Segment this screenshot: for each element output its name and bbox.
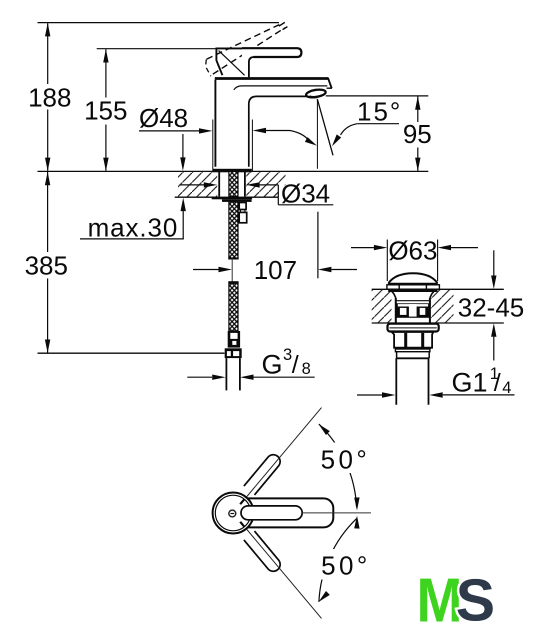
top view: lever: [237, 498, 334, 527]
label diameter 34: [180, 184, 205, 186]
angle arc lower: [319, 519, 357, 602]
braided hose in deck: [229, 171, 238, 196]
svg-text:4: 4: [502, 379, 511, 397]
svg-text:8: 8: [302, 360, 311, 378]
deck bottom lines: [175, 196, 279, 198]
top reference line (188 level): [38, 22, 280, 24]
svg-text:Ø34: Ø34: [281, 179, 330, 209]
spout height reference line: [326, 95, 429, 97]
top view: body circle: [213, 493, 254, 534]
G3/8 threaded tube: [226, 358, 240, 390]
water stream 15 deg: [317, 99, 333, 155]
mounting nut: [222, 199, 252, 202]
nut lower step: [395, 349, 430, 352]
mounting deck hatch right: [246, 172, 285, 186]
svg-text:188: 188: [28, 82, 71, 112]
top view: hidden-edge ticks: [240, 499, 244, 526]
mounting deck hatch left: [178, 172, 217, 198]
dimension 32-45: [493, 250, 495, 275]
pull-rod fitting: [239, 203, 246, 210]
drain cap dome: [389, 273, 438, 283]
svg-text:S: S: [456, 568, 495, 634]
handle pivot block: [216, 48, 245, 75]
angle arc upper: [319, 424, 357, 507]
dimension 95: [417, 96, 419, 170]
top view: lower swung lever ghost: [244, 531, 280, 571]
spout underside and body right edge: [249, 96, 308, 166]
deck top line: [38, 170, 429, 172]
basin deck lines: [372, 289, 504, 323]
top view: upper swung lever ghost: [244, 455, 280, 495]
top view: logo button: [229, 510, 236, 517]
top view: 50 deg centerline upper: [244, 408, 322, 500]
svg-text:50°: 50°: [321, 445, 371, 475]
G1 1/4 tailpipe: [396, 358, 428, 404]
15 deg pointer arc: [290, 131, 309, 141]
drain neck cone: [392, 292, 434, 298]
drain: diameter 63 extension lines: [387, 240, 437, 282]
dimension 188: [47, 23, 49, 171]
waste hole centerline reference: [317, 212, 319, 279]
aerator: [306, 88, 327, 98]
label 50 deg lower: [321, 549, 372, 580]
spout inner top line: [234, 86, 327, 90]
spout centerline: [316, 99, 318, 169]
svg-text:95: 95: [403, 119, 432, 149]
svg-text:Ø48: Ø48: [139, 103, 188, 133]
top view: horizontal centerline: [302, 512, 371, 514]
drain flange washer: [388, 324, 439, 332]
faucet body top edge: [215, 77, 328, 80]
dimension G1 1/4: [357, 394, 382, 396]
hose break centerline: [231, 259, 233, 283]
G3/8 nut: [225, 348, 242, 358]
shank tubes through deck: [219, 171, 245, 196]
dimension 385: [47, 172, 49, 353]
svg-text:32-45: 32-45: [458, 293, 525, 323]
svg-text:155: 155: [84, 96, 127, 126]
raised lever dashed outline: [207, 25, 280, 60]
svg-text:G1: G1: [452, 367, 488, 397]
svg-text:G: G: [262, 350, 283, 380]
svg-text:385: 385: [25, 250, 68, 280]
drain flange under cap: [388, 289, 437, 292]
MS logo: [417, 566, 496, 635]
drain body: [396, 298, 430, 323]
svg-text:50°: 50°: [321, 550, 371, 580]
drain cap rim: [387, 285, 440, 289]
svg-text:/: /: [494, 369, 501, 397]
svg-text:3: 3: [283, 346, 292, 364]
label 50 deg upper: [321, 443, 372, 474]
hose upper segment: [229, 202, 238, 258]
lever neck: [249, 57, 254, 77]
svg-text:107: 107: [254, 255, 297, 285]
drain locknut: [392, 332, 434, 348]
155 reference line (handle level): [97, 48, 217, 50]
raised-lever tip dashes: [279, 22, 288, 29]
body left edge: [214, 80, 216, 167]
dimension diameter 63: [351, 247, 375, 249]
dimension 107: [193, 269, 219, 271]
label max.30: [182, 134, 184, 158]
basin deck hatch: [372, 289, 392, 323]
faucet base plate: [213, 169, 252, 173]
overflow window band: [397, 303, 430, 318]
svg-text:max.30: max.30: [88, 212, 179, 242]
top view: 50 deg centerline lower: [244, 526, 322, 618]
dimension G 3/8: [187, 376, 212, 378]
top view: lever slot: [241, 506, 302, 520]
mounting washer: [212, 197, 252, 200]
svg-text:Ø63: Ø63: [388, 236, 437, 266]
dimension 155: [105, 49, 107, 171]
diameter48 extension lines: [213, 120, 253, 172]
lever blade: [242, 47, 301, 58]
hose end ferrule: [228, 331, 240, 348]
svg-text:/: /: [292, 351, 299, 379]
bottom reference line (385 level): [38, 352, 225, 354]
hose lower segment: [228, 281, 238, 283]
svg-text:15°: 15°: [357, 96, 402, 126]
